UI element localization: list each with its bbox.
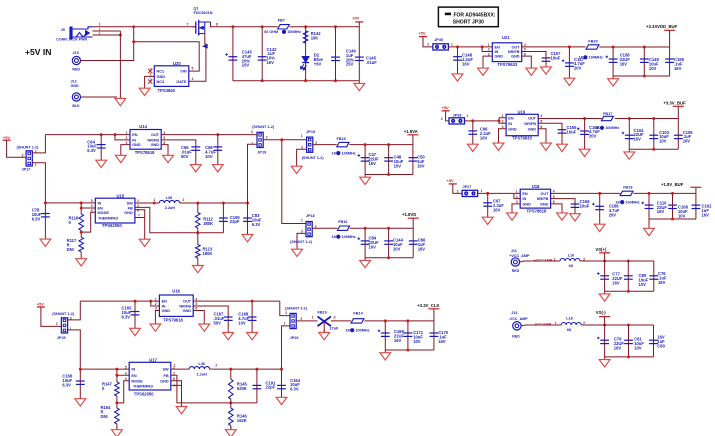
label C144	[393, 238, 404, 252]
svg-text:10V: 10V	[634, 345, 642, 350]
wire flag stem4	[412, 135, 414, 145]
svg-text:2: 2	[427, 43, 429, 47]
wire +3.3AVDD rail	[600, 46, 670, 48]
svg-text:U15: U15	[117, 193, 125, 198]
ground	[360, 258, 371, 268]
label SHUNT18	[290, 240, 313, 244]
label C155	[567, 125, 578, 134]
label C157	[551, 51, 562, 60]
svg-text:16V: 16V	[702, 212, 710, 217]
label J13	[511, 311, 517, 315]
pin 3	[334, 315, 336, 319]
capacitor C108	[668, 205, 677, 208]
svg-text:6.3V: 6.3V	[87, 148, 96, 153]
label C156	[580, 199, 591, 208]
svg-text:TPS79633: TPS79633	[497, 62, 517, 67]
resistor R147	[115, 382, 120, 396]
no-connect	[148, 69, 152, 73]
wire C84	[364, 228, 366, 258]
svg-text:IN: IN	[522, 197, 526, 201]
wire C157	[522, 52, 546, 65]
svg-text:6.3V: 6.3V	[252, 222, 261, 227]
wire bottom U18 row	[649, 218, 696, 220]
svg-text:50V: 50V	[181, 154, 189, 159]
ground	[507, 210, 518, 220]
svg-text:16V: 16V	[462, 61, 470, 66]
label C162	[702, 204, 713, 218]
svg-text:NC1: NC1	[157, 70, 165, 74]
svg-text:5: 5	[192, 67, 194, 71]
junction	[196, 202, 199, 205]
svg-text:+5V: +5V	[442, 105, 450, 110]
capacitor C156	[571, 204, 580, 207]
junction	[304, 25, 307, 28]
wire C47	[364, 145, 366, 175]
label J11	[511, 249, 517, 253]
junction	[598, 192, 601, 195]
svg-text:FB7: FB7	[278, 19, 285, 23]
jumper JP27	[462, 190, 478, 196]
svg-text:1: 1	[154, 198, 156, 202]
label C76	[658, 271, 667, 285]
pin 1	[301, 218, 303, 222]
junction	[251, 300, 254, 303]
ground	[380, 350, 391, 360]
label C81	[634, 337, 644, 351]
connector J11	[511, 258, 519, 266]
op-amp U16 TPS79618	[155, 288, 198, 322]
capacitor C160	[577, 128, 589, 135]
wire U15 gnd	[135, 210, 145, 218]
svg-text:L16: L16	[568, 253, 575, 257]
DNI ferrite FB19	[318, 317, 331, 327]
wire +5V to JP25	[41, 307, 62, 326]
pin 7	[174, 384, 176, 388]
wire flag stem	[669, 30, 671, 47]
svg-text:DNI: DNI	[101, 414, 108, 419]
resistor R145	[229, 379, 234, 399]
ground	[242, 232, 253, 242]
svg-text:+3.3V_BUF: +3.3V_BUF	[663, 101, 686, 106]
wire JP27 to U18	[478, 192, 514, 194]
capacitor C84	[358, 237, 370, 244]
svg-text:GND: GND	[540, 203, 549, 207]
resistor R116	[79, 214, 84, 230]
ground	[354, 81, 365, 91]
label FB18	[623, 185, 632, 189]
wire C158	[612, 47, 614, 76]
svg-text:VIN: VIN	[180, 70, 187, 74]
svg-text:10V: 10V	[678, 213, 686, 218]
resistor R154	[115, 408, 120, 424]
label -VCC_AMP	[509, 317, 529, 321]
wire R116 col	[80, 208, 82, 214]
label +5V IN	[25, 47, 52, 57]
power flag +1.8V_BUF	[661, 182, 701, 188]
svg-text:SW: SW	[162, 368, 169, 372]
svg-text:16V: 16V	[674, 66, 682, 71]
power flag +1.8VD	[402, 212, 419, 218]
label C143	[242, 50, 253, 68]
svg-text:EN: EN	[162, 300, 168, 304]
capacitor C146	[331, 57, 340, 60]
label R146	[237, 414, 248, 423]
capacitor C142	[258, 57, 267, 60]
ferrite bead FB15	[337, 142, 349, 146]
junction	[471, 119, 474, 122]
capacitor C158	[606, 56, 618, 63]
capacitor C148	[453, 57, 462, 60]
capacitor C81	[624, 340, 633, 343]
label C82	[657, 335, 665, 349]
junction	[583, 117, 586, 120]
svg-text:3: 3	[35, 150, 37, 154]
wire R113 col	[197, 233, 199, 245]
svg-text:GND: GND	[151, 143, 160, 147]
wire U19 gnd L	[499, 129, 507, 141]
label FB19	[318, 311, 327, 315]
svg-text:(SHUNT 1-2): (SHUNT 1-2)	[17, 146, 40, 150]
svg-text:GND: GND	[511, 55, 520, 59]
wire U15 SW	[135, 202, 159, 204]
wire bottom VS-	[605, 356, 654, 358]
op-amp U14 TPS78618	[126, 124, 166, 155]
note box	[438, 7, 498, 27]
svg-text:GND: GND	[157, 75, 166, 79]
wire JP17 p1	[32, 163, 45, 203]
label C149	[649, 57, 660, 71]
junction	[648, 192, 651, 195]
junction	[652, 148, 655, 151]
svg-text:7: 7	[138, 214, 140, 218]
wire bottom U19 row	[629, 148, 678, 150]
label C167	[214, 312, 225, 326]
wire C168	[251, 301, 253, 330]
net -VCCAMP	[534, 322, 552, 326]
resistor R142	[303, 31, 308, 43]
junction	[196, 231, 199, 234]
wire U16 rail	[80, 300, 159, 302]
svg-text:2: 2	[155, 302, 157, 306]
pin 1	[251, 142, 253, 146]
wire VS- rail	[581, 324, 653, 326]
label C65	[181, 145, 192, 159]
svg-text:VS(-): VS(-)	[596, 310, 607, 315]
svg-text:J13: J13	[511, 311, 517, 315]
svg-text:RED: RED	[512, 269, 520, 273]
junction	[79, 368, 82, 371]
wire +5V rail top	[233, 26, 278, 28]
wire JP18 p2	[312, 227, 337, 229]
jumper JP19	[257, 132, 263, 147]
wire U16 out	[193, 300, 280, 302]
wire U15 rail	[45, 202, 95, 204]
svg-text:JP17: JP17	[22, 167, 31, 171]
svg-text:3: 3	[251, 130, 253, 134]
junction	[671, 218, 674, 221]
label C171	[413, 330, 424, 344]
svg-text:+3.3AVDD_BUF: +3.3AVDD_BUF	[646, 24, 678, 29]
jumper JP30	[433, 44, 449, 50]
svg-text:6.3V: 6.3V	[290, 387, 299, 392]
wire X to FB14	[331, 320, 351, 322]
svg-text:FB14: FB14	[353, 312, 363, 316]
wire flag stem2	[677, 106, 679, 118]
ground	[247, 330, 258, 340]
svg-text:NR/FB: NR/FB	[147, 139, 159, 143]
capacitor C166b	[592, 203, 604, 210]
label C80	[639, 273, 649, 287]
label R142	[311, 31, 322, 40]
inductor L16	[560, 259, 580, 262]
wire U15 FB	[135, 207, 224, 232]
wire MODE17	[117, 381, 129, 403]
capacitor C149	[640, 59, 649, 62]
svg-text:2: 2	[22, 153, 24, 157]
wire +1.8V_BUF rail	[634, 192, 696, 194]
label L16	[568, 253, 575, 257]
svg-text:+1.8VA: +1.8VA	[404, 129, 418, 134]
svg-text:16V: 16V	[493, 207, 501, 212]
wire C156	[551, 199, 575, 211]
svg-text:2.2uH: 2.2uH	[165, 206, 176, 210]
wire J10	[81, 27, 134, 61]
ground	[594, 222, 605, 232]
power flag VS(+)	[595, 247, 610, 253]
svg-text:10uF: 10uF	[551, 55, 561, 60]
junction	[231, 25, 234, 28]
jumper JP28	[449, 118, 465, 124]
svg-text:10V: 10V	[649, 66, 657, 71]
transistor Q1	[193, 20, 211, 36]
svg-text:100MHz: 100MHz	[589, 56, 603, 60]
label J12 GND	[71, 80, 80, 88]
wire C170	[433, 321, 435, 350]
svg-text:6.3V: 6.3V	[122, 314, 131, 319]
ground	[115, 153, 126, 163]
svg-text:5: 5	[91, 199, 93, 203]
svg-text:2: 2	[126, 136, 128, 140]
label FB16 value	[332, 235, 356, 239]
junction	[387, 227, 390, 230]
label JP17	[22, 167, 31, 171]
pin 5	[192, 67, 194, 71]
Q1 bulk arrow	[203, 44, 207, 48]
label FB14 value	[345, 328, 369, 332]
wire C143	[232, 27, 234, 81]
junction	[100, 133, 103, 136]
label FB15	[337, 137, 346, 141]
wire JP18 p3 gnd	[297, 233, 306, 246]
capacitor C159	[665, 59, 674, 62]
wire C167	[193, 306, 228, 330]
svg-text:100MHz: 100MHz	[625, 200, 639, 204]
capacitor C168	[248, 317, 257, 320]
svg-text:OUT: OUT	[511, 46, 520, 50]
capacitor C190	[219, 218, 228, 221]
junction	[153, 202, 156, 205]
svg-text:JP15: JP15	[306, 130, 315, 134]
wire flag stem6	[433, 309, 435, 321]
svg-text:GND: GND	[522, 203, 531, 207]
label C84	[369, 236, 380, 250]
wire Q1 gate	[189, 34, 206, 82]
ground	[564, 76, 575, 86]
svg-text:16V: 16V	[394, 338, 402, 343]
svg-text:THERMPAD: THERMPAD	[133, 384, 154, 388]
label C97	[493, 199, 504, 213]
svg-text:2.2uH: 2.2uH	[197, 372, 208, 376]
wire U17 FB	[171, 375, 257, 403]
svg-text:2: 2	[183, 198, 185, 202]
svg-text:1K: 1K	[332, 151, 337, 155]
svg-text:JP18: JP18	[306, 214, 315, 218]
svg-text:6.3V: 6.3V	[32, 216, 41, 221]
label C64	[87, 139, 97, 153]
wire U21 in link	[482, 47, 492, 52]
label C170	[438, 330, 449, 344]
pin 2	[457, 189, 459, 193]
svg-text:TPS78618: TPS78618	[135, 150, 155, 155]
wire C83	[247, 203, 249, 232]
svg-text:1: 1	[301, 134, 303, 138]
label L16 value	[569, 264, 573, 268]
label C158	[620, 53, 631, 67]
inductor L18	[561, 323, 581, 326]
svg-text:16V: 16V	[438, 339, 446, 344]
svg-text:2: 2	[300, 317, 302, 321]
junction	[456, 45, 459, 48]
capacitor C50	[409, 158, 418, 161]
junction	[304, 79, 307, 82]
svg-text:1: 1	[312, 315, 314, 319]
wire U16 gnd L	[155, 311, 159, 322]
capacitor C86	[409, 241, 418, 244]
junction	[387, 256, 390, 259]
ground	[541, 64, 552, 74]
junction	[44, 201, 47, 204]
svg-text:(SHUNT 1-2): (SHUNT 1-2)	[290, 240, 313, 244]
pin 1	[99, 23, 101, 27]
label L36 value	[197, 372, 208, 376]
capacitor C80	[624, 276, 633, 279]
wire X gnd	[323, 322, 325, 333]
junction	[114, 133, 117, 136]
svg-text:1: 1	[488, 43, 490, 47]
op-amp U18 TPS78618	[516, 184, 555, 214]
label R154	[101, 405, 112, 419]
wire R146 bot	[230, 426, 232, 430]
label C148	[462, 53, 473, 67]
pin 1	[70, 327, 72, 331]
pin 7	[138, 214, 140, 218]
ground	[452, 71, 463, 81]
wire J13 to L18	[521, 324, 561, 327]
svg-text:IN: IN	[132, 139, 136, 143]
label L35 value	[165, 206, 176, 210]
junction	[280, 368, 283, 371]
capacitor C169	[378, 330, 390, 337]
svg-text:J10: J10	[72, 50, 79, 55]
label R112	[203, 217, 213, 226]
label SHUNT15	[302, 156, 325, 160]
svg-text:10V: 10V	[205, 154, 213, 159]
jumper JP25	[61, 318, 67, 333]
capacitor C155	[558, 130, 567, 133]
svg-text:16V: 16V	[369, 161, 377, 166]
wire bottom U21 row	[613, 75, 670, 77]
label JP26	[290, 336, 299, 340]
wire U15 en link	[81, 203, 95, 208]
wire R113 bot	[197, 258, 199, 263]
pin 2	[99, 28, 101, 32]
resistor R113	[196, 245, 201, 259]
svg-text:NR/FB: NR/FB	[537, 197, 549, 201]
jumper JP17	[26, 151, 32, 166]
wire C86	[412, 228, 414, 258]
svg-text:MODE: MODE	[98, 211, 110, 215]
pin 1	[555, 321, 557, 325]
svg-text:180K: 180K	[203, 251, 213, 256]
svg-text:2: 2	[488, 48, 490, 52]
label FB15 value	[332, 151, 356, 155]
wire bottom VS+	[605, 290, 654, 292]
svg-text:1: 1	[284, 321, 286, 325]
svg-text:16V: 16V	[417, 163, 425, 168]
wire C65	[161, 140, 196, 162]
capacitor C103	[649, 135, 658, 138]
svg-text:+1.8V_BUF: +1.8V_BUF	[661, 182, 684, 187]
junction	[643, 75, 646, 78]
svg-text:16V: 16V	[480, 135, 488, 140]
wire +1.8VD rail	[350, 227, 413, 229]
capacitor C171	[404, 333, 413, 336]
op-amp U20 TPS3840	[150, 61, 189, 93]
pin 2	[22, 153, 24, 157]
svg-text:J12: J12	[71, 80, 77, 84]
wire gnd drop	[119, 31, 121, 96]
wire C82	[653, 325, 655, 357]
svg-text:3: 3	[334, 315, 336, 319]
ground	[541, 140, 552, 150]
ground	[112, 427, 123, 436]
svg-text:L18: L18	[566, 317, 573, 321]
junction	[80, 231, 83, 234]
pin 2	[427, 43, 429, 47]
svg-text:100MHz: 100MHz	[605, 126, 619, 130]
ground	[557, 142, 568, 152]
power +5V	[37, 302, 45, 308]
ground	[360, 175, 371, 185]
label FB17 value	[595, 126, 619, 130]
wire JP26 p1	[282, 326, 291, 369]
svg-text:3: 3	[91, 209, 93, 213]
pin 8	[216, 23, 218, 27]
wire U18 gnd R	[551, 204, 562, 210]
junction	[603, 324, 606, 327]
svg-text:2: 2	[266, 136, 268, 140]
label FB17	[603, 112, 612, 116]
label BLK	[72, 104, 80, 108]
label FB18 value	[615, 200, 639, 204]
connector J10	[72, 56, 80, 64]
svg-text:+5V: +5V	[37, 302, 45, 307]
capacitor C65	[191, 147, 200, 150]
pin 1	[174, 364, 176, 368]
capacitor C76	[649, 276, 658, 279]
label C169	[394, 329, 405, 343]
svg-text:3: 3	[301, 145, 303, 149]
